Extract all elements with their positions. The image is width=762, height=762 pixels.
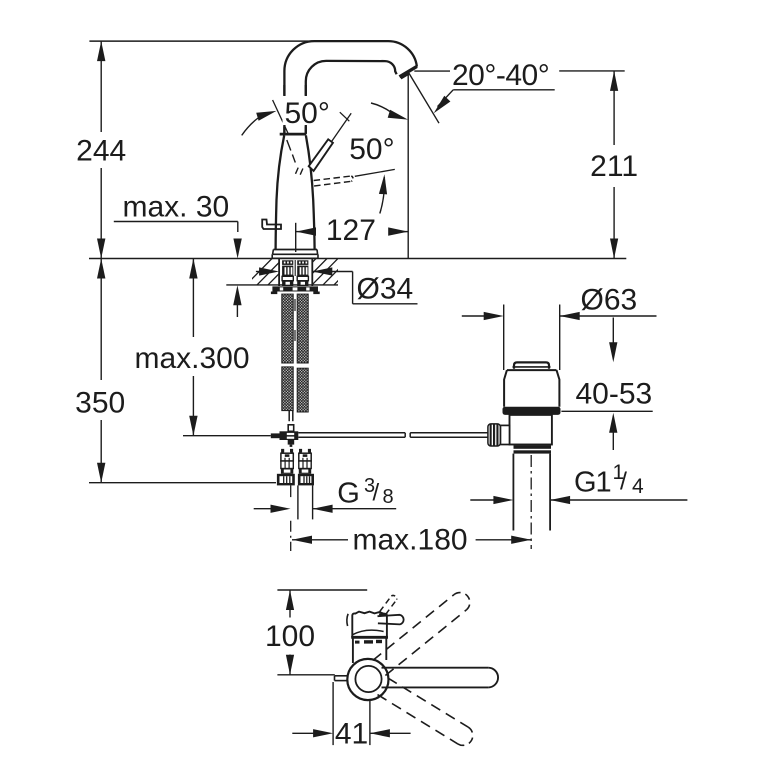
drain seal O-ring [503, 407, 561, 415]
label 127 [326, 214, 376, 247]
label dia34 [357, 273, 414, 306]
dimension 40-53 [561, 318, 652, 451]
dimension max30 leader [114, 222, 242, 259]
svg-text:41: 41 [335, 718, 368, 751]
svg-text:350: 350 [75, 387, 125, 420]
drain body [510, 415, 552, 445]
connection nut (right) [298, 474, 314, 486]
plan: spout swung up (dashed) [373, 593, 470, 676]
plan: lever handle [378, 613, 404, 624]
outlet angle line [409, 73, 439, 124]
label G3-8 [337, 475, 393, 509]
left connection centre line [290, 485, 292, 551]
mixer lever handle [309, 139, 333, 171]
label 50deg lever [283, 96, 332, 130]
dimension G1-1/4 [470, 496, 687, 504]
shank center gap lines [294, 260, 296, 276]
top reference line (spout height) [89, 40, 315, 42]
svg-text:50°: 50° [285, 97, 330, 130]
label 41 [335, 718, 368, 751]
drain pop-up plug cap [513, 362, 551, 368]
dimension max300 line [189, 259, 197, 436]
hose tails in shank (left) [282, 260, 293, 286]
hose tails in shank (right) [297, 260, 308, 286]
label max300 [134, 342, 249, 375]
label max30 [123, 191, 230, 224]
plan: spout pivot inner circle [355, 666, 381, 692]
plan: cartridge housing [347, 612, 388, 638]
lever reference axis line [273, 100, 289, 134]
spout outlet end face [400, 66, 417, 78]
plan: spout swung down (dashed) [378, 678, 473, 745]
drain flange bell [504, 370, 559, 407]
label dia63 [581, 284, 638, 317]
label 40-53 [576, 377, 653, 410]
svg-text:127: 127 [326, 214, 376, 247]
dimension 350 line [97, 259, 105, 483]
label 244 [76, 135, 126, 168]
pop-up rod coupling [271, 425, 299, 447]
plan: retainer ring marks [355, 640, 382, 644]
svg-text:244: 244 [76, 135, 126, 168]
svg-text:max. 30: max. 30 [123, 191, 230, 224]
hose centre dashes [294, 299, 296, 341]
outlet angle leader lines [414, 71, 624, 107]
spout inner profile [306, 61, 397, 134]
svg-text:Ø63: Ø63 [581, 284, 638, 317]
pop-up pull rod lever [262, 220, 281, 230]
lever swing reference line [355, 169, 395, 176]
svg-text:8: 8 [383, 486, 394, 508]
svg-text:G: G [337, 477, 360, 509]
svg-text:G1: G1 [574, 467, 611, 499]
svg-text:4: 4 [632, 475, 644, 498]
label G1-1/4 [574, 461, 644, 499]
hidden cartridge dashes [287, 140, 303, 175]
horizontal pull rod (left thin) [183, 435, 271, 437]
dimension dia63 [462, 305, 657, 371]
plan: body sides [353, 637, 386, 663]
dimension max180 [292, 536, 531, 544]
connection nut (left) [277, 474, 295, 486]
spout (gooseneck) outer profile [284, 41, 417, 134]
outlet extension line [407, 75, 409, 259]
label 211 [590, 150, 638, 183]
dimension 244 line [97, 41, 105, 258]
mounting shank outer walls [279, 259, 312, 287]
horizontal pull rod (tube to drain) [298, 433, 488, 437]
svg-text:50°: 50° [349, 133, 394, 166]
lever axis line to cross mark [332, 112, 352, 141]
drain knurled adjuster [488, 424, 501, 446]
svg-text:211: 211 [590, 150, 638, 183]
dimension max30 lower arrow [233, 285, 241, 317]
dimension 41 [292, 682, 410, 745]
outlet angle arrow [434, 96, 451, 114]
flexible hose (right, lower segment) [297, 368, 308, 412]
dimension dia34 [256, 267, 418, 303]
plan: spout pivot outer circle [347, 659, 388, 700]
svg-text:max.300: max.300 [134, 342, 249, 375]
dimension G3-8 [254, 505, 397, 513]
neck ledge joint [280, 133, 307, 136]
lever horizontal position (dashed) [314, 176, 353, 186]
svg-text:Ø34: Ø34 [357, 273, 414, 306]
plan: spout arm (solid) [382, 668, 499, 688]
G3/8 connection pipe [298, 485, 313, 519]
dimension 100 [277, 590, 367, 675]
label max180 [353, 523, 468, 556]
base escutcheon [272, 250, 318, 259]
pop-up rod vertical [289, 411, 293, 422]
drain centre line [530, 455, 532, 549]
countertop surface line [89, 258, 626, 260]
spout neck tube [284, 85, 305, 134]
plan: lever dashed position [380, 595, 397, 614]
hose end fitting (left) [281, 449, 293, 474]
drain lock rings [514, 445, 552, 453]
flexible hose (right, upper segment) [297, 294, 308, 363]
50-degree arc arrow (lever swing) [379, 174, 387, 213]
faucet body outline [276, 136, 315, 250]
flexible hose (left, lower segment) [282, 367, 293, 411]
svg-text:100: 100 [265, 620, 315, 653]
label 100 [265, 620, 315, 653]
dimension 127 [296, 223, 409, 252]
svg-text:20°-40°: 20°-40° [452, 59, 549, 92]
mounting washer [271, 286, 320, 294]
counter underside line [226, 284, 338, 286]
svg-text:max.180: max.180 [353, 523, 468, 556]
svg-text:/: / [373, 480, 380, 507]
plan: pop-up rod stub [335, 676, 348, 681]
label 350 [75, 387, 125, 420]
hose end fitting (right) [299, 449, 311, 474]
dimension 211 line [610, 71, 618, 259]
350 bottom reference line [89, 482, 276, 484]
label 50deg swing [349, 133, 394, 166]
50-degree arc arrow (lever lift) [242, 111, 277, 135]
svg-text:/: / [620, 468, 627, 496]
spout tilt arc arrow [371, 103, 408, 120]
label 20-40 deg [452, 59, 549, 92]
flexible hose (left, upper segment) [282, 294, 293, 363]
drain rod port [500, 425, 509, 444]
svg-text:40-53: 40-53 [576, 377, 653, 410]
drain tailpipe [513, 454, 550, 531]
